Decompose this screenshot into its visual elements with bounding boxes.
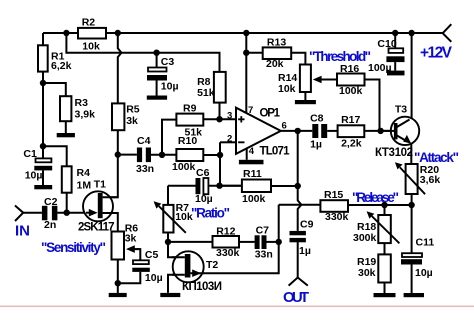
svg-text:330k: 330k [325, 211, 349, 223]
svg-text:10µ: 10µ [25, 170, 43, 182]
svg-text:+12V: +12V [420, 45, 453, 62]
svg-text:R3: R3 [75, 97, 89, 109]
svg-text:C11: C11 [416, 237, 435, 249]
svg-text:10µ: 10µ [195, 193, 213, 205]
wire R9 left vertical [162, 120, 176, 155]
wire R4 top [43, 146, 67, 166]
resistor R17 [338, 125, 365, 137]
terminal +12V [443, 24, 452, 42]
svg-text:C2: C2 [44, 196, 58, 208]
svg-text:R11: R11 [243, 168, 262, 180]
ground below R3 [57, 133, 75, 137]
svg-text:330k: 330k [216, 247, 240, 259]
wire T3 emitter to R20 [397, 137, 411, 165]
svg-text:3k: 3k [125, 233, 137, 245]
ground below R19 [374, 293, 396, 297]
wire R18 R19 link [384, 243, 386, 254]
svg-text:"Attack": "Attack" [414, 150, 459, 165]
svg-text:33n: 33n [136, 163, 154, 175]
resistor R2 [78, 28, 106, 39]
capacitor C4 [137, 148, 142, 163]
capacitor C1 [34, 158, 52, 170]
resistor R18 [378, 215, 391, 243]
svg-text:C8: C8 [310, 112, 324, 124]
svg-text:C1: C1 [23, 148, 37, 160]
transistor T3 KT3102 [381, 117, 420, 145]
resistor R11 [242, 180, 271, 193]
svg-text:R5: R5 [126, 103, 140, 115]
wire C4 right to R10 [151, 154, 176, 156]
capacitor C2 [42, 206, 48, 221]
capacitor C11 [401, 253, 422, 264]
ground below C3 [147, 96, 167, 100]
wire IN to C2 [23, 212, 42, 214]
svg-text:2SK117: 2SK117 [78, 222, 115, 234]
ground below R6 [109, 293, 127, 297]
svg-text:OP1: OP1 [260, 108, 281, 120]
capacitor C3 [147, 68, 167, 81]
wire R5 to T1 drain [102, 130, 118, 197]
wire R6 bottom to ground [117, 260, 119, 293]
svg-text:КТ3102: КТ3102 [375, 147, 413, 159]
svg-text:"Threshold": "Threshold" [309, 49, 371, 64]
resistor R6 [112, 232, 125, 260]
wire R17 to T3 base [364, 130, 394, 132]
wire opamp pin7 supply [245, 33, 247, 113]
resistor R9 [176, 114, 203, 126]
wire C2 to T1 gate [57, 212, 97, 214]
wire R15 right run [348, 204, 412, 206]
svg-text:C9: C9 [300, 219, 314, 231]
svg-text:R2: R2 [82, 16, 96, 28]
wire pin2 [220, 141, 236, 143]
resistor R5 [112, 103, 124, 130]
svg-text:R12: R12 [216, 225, 235, 237]
svg-text:T3: T3 [395, 104, 407, 116]
svg-text:2: 2 [227, 133, 232, 144]
wire C5 bottom to R6 node [118, 272, 141, 283]
svg-text:33n: 33n [255, 249, 273, 261]
wire C10 ground stem [394, 62, 396, 71]
svg-text:3,9k: 3,9k [75, 109, 96, 121]
capacitor C9 [290, 231, 306, 235]
wire C11 stem [411, 205, 413, 253]
svg-text:1µ: 1µ [299, 245, 311, 257]
wire C4 left [118, 154, 137, 156]
wire C3 stem [156, 53, 158, 68]
wire R1 bottom to C1 node [42, 72, 44, 147]
svg-text:R13: R13 [267, 36, 286, 48]
svg-text:51k: 51k [197, 87, 215, 99]
capacitor C7 [255, 235, 260, 249]
ground below C1 [34, 185, 52, 189]
wire opamp out to C8 [281, 130, 313, 132]
wire R10 right [203, 154, 220, 156]
svg-text:C3: C3 [161, 56, 175, 68]
capacitor C6 [196, 178, 209, 194]
wire R19 ground stem [384, 283, 386, 294]
svg-text:C7: C7 [256, 224, 270, 236]
wire branch to R3 [43, 83, 66, 96]
trimmer arrow R6 [133, 248, 140, 250]
svg-text:T1: T1 [94, 179, 106, 191]
resistor R3 [60, 96, 71, 121]
svg-text:2n: 2n [44, 219, 56, 231]
wire C6 left from R7 [168, 185, 196, 187]
svg-text:100k: 100k [242, 193, 266, 205]
rheostat arrow R18 [372, 216, 400, 243]
wire C9 to OUT [297, 242, 299, 277]
resistor R20 [406, 164, 418, 194]
wire R7 top lead [167, 186, 169, 205]
svg-text:TL071: TL071 [260, 145, 291, 157]
capacitor C10 [386, 48, 404, 62]
wire C7 node up to R15 line [278, 205, 280, 242]
svg-text:"Sensitivity": "Sensitivity" [41, 240, 106, 255]
svg-text:"Ratio": "Ratio" [191, 206, 230, 221]
wire C5 top stem [132, 249, 141, 260]
svg-text:6,2k: 6,2k [51, 60, 72, 72]
svg-text:R9: R9 [183, 102, 197, 114]
resistor R15 [320, 200, 348, 212]
svg-text:100k: 100k [339, 85, 363, 97]
svg-text:10k: 10k [82, 40, 100, 52]
wire pin2 vertical [219, 142, 221, 185]
svg-text:100µ: 100µ [368, 62, 392, 74]
svg-text:R10: R10 [178, 135, 197, 147]
decorative page rule [0, 306, 474, 308]
wire C8 to R17 [327, 130, 337, 132]
wire R11 left [220, 185, 242, 187]
svg-text:C5: C5 [145, 249, 159, 261]
op-amp U1 TL071 [236, 108, 281, 154]
wire T2 source to ground [168, 275, 185, 293]
svg-text:4: 4 [249, 146, 255, 157]
wire T1 source to R6 [102, 213, 118, 232]
wire R8 bottom stem [219, 103, 221, 120]
wire T3 collector to rail [397, 33, 412, 126]
wire R14 ground stem [304, 92, 306, 100]
svg-text:3,6k: 3,6k [420, 174, 441, 186]
svg-text:"Release": "Release" [352, 190, 399, 205]
rheostat arrow R7 [159, 206, 186, 233]
svg-text:2,2k: 2,2k [341, 138, 362, 150]
terminal IN [15, 206, 23, 222]
svg-text:C4: C4 [137, 135, 151, 147]
svg-text:T2: T2 [206, 259, 218, 271]
svg-text:R4: R4 [77, 167, 91, 179]
ground below opamp pin4 [239, 160, 264, 165]
transistor T1 2SK117 [83, 191, 118, 221]
svg-text:6: 6 [282, 121, 287, 132]
svg-text:10k: 10k [278, 83, 296, 95]
wire node to R8 (bypass) [66, 33, 219, 72]
svg-text:IN: IN [15, 223, 30, 240]
wire R13 right to R14 [291, 53, 305, 65]
capacitor C5 [132, 260, 150, 272]
wire R11 right [271, 185, 298, 187]
svg-text:OUT: OUT [283, 289, 309, 306]
svg-text:1µ: 1µ [310, 138, 322, 150]
ground below R14 [295, 100, 316, 104]
wire C7 node down to T2 gate [190, 242, 278, 273]
resistor R13 [263, 47, 292, 59]
rheostat arrow R20 [400, 167, 425, 194]
wire out node vertical with hop [298, 131, 302, 231]
svg-text:1M: 1M [77, 179, 92, 191]
resistor R12 [213, 236, 240, 248]
svg-text:R15: R15 [324, 189, 343, 201]
wire opamp pin4 ground [246, 148, 248, 160]
terminal OUT [289, 278, 308, 286]
resistor R19 [378, 254, 391, 282]
ground below C10 [387, 71, 405, 76]
wire R18 top lead [384, 205, 386, 215]
svg-text:20k: 20k [266, 58, 284, 70]
ground below C11 [404, 293, 424, 297]
wire R14 wiper to R16 [315, 79, 337, 81]
svg-text:10µ: 10µ [161, 80, 179, 92]
svg-text:C6: C6 [196, 167, 210, 179]
wire C10 stem [394, 33, 396, 48]
junction node dots [63, 30, 69, 36]
resistor R8 [214, 72, 226, 103]
wire C1 ground stem [42, 170, 44, 185]
wire R1 top lead [42, 33, 44, 45]
resistor R14 [300, 65, 311, 93]
wire R3 ground stem [65, 121, 67, 133]
wire node to R15 [279, 204, 321, 206]
transistor T2 KP103I [172, 251, 204, 282]
trimmer arrow R14 [321, 79, 337, 81]
wire C1 stem [42, 146, 44, 158]
svg-text:10µ: 10µ [415, 267, 433, 279]
svg-text:30k: 30k [358, 267, 376, 279]
wire R12 to C7 [239, 241, 255, 243]
wire R13 left [246, 52, 262, 54]
wire C6 right [208, 185, 242, 187]
svg-text:3: 3 [227, 110, 232, 121]
wire R4 bottom [66, 193, 68, 213]
wire T2 drain from R7 node [168, 242, 185, 257]
resistor R1 [38, 45, 48, 71]
wire R7 bottom to R12 [168, 233, 213, 242]
wire R9 right to pin3 [203, 118, 236, 120]
resistor R4 [62, 166, 72, 192]
svg-text:7: 7 [248, 105, 253, 116]
svg-text:КП103И: КП103И [182, 281, 222, 293]
svg-text:100k: 100k [172, 161, 196, 173]
wire R20 bottom [411, 194, 413, 205]
wire C7 right junction [267, 241, 279, 243]
svg-text:C10: C10 [377, 38, 396, 50]
resistor R16 [337, 74, 365, 86]
capacitor C8 [312, 124, 318, 138]
wire R16 right down to T3 base node [365, 80, 380, 131]
ground below T2 [160, 293, 180, 297]
svg-text:R16: R16 [340, 63, 359, 75]
wire +12V top rail [43, 32, 443, 34]
svg-text:R17: R17 [341, 114, 360, 126]
resistor R7 [163, 205, 173, 233]
wire rail drop to R5 with hop [118, 33, 122, 103]
svg-text:10µ: 10µ [145, 272, 163, 284]
svg-text:300k: 300k [353, 232, 377, 244]
wire C11 ground stem [411, 265, 413, 294]
svg-text:3k: 3k [126, 115, 138, 127]
resistor R10 [176, 149, 203, 161]
wire C3 to ground [156, 81, 158, 96]
